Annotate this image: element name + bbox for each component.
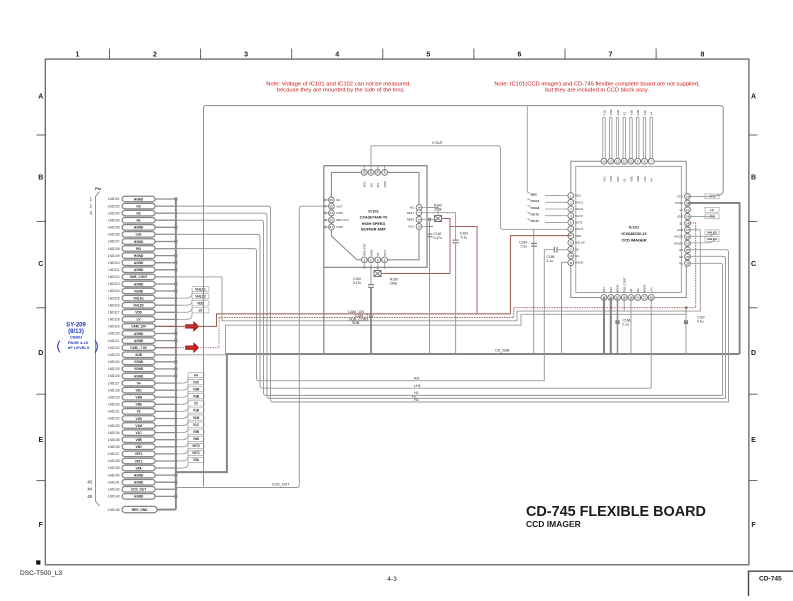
svg-text:VGT2: VGT2 xyxy=(575,214,583,218)
svg-text:LND111: LND111 xyxy=(108,268,119,272)
svg-text:): ) xyxy=(94,338,98,353)
svg-text:REG_GND: REG_GND xyxy=(132,508,148,512)
svg-text:V3C: V3C xyxy=(135,388,142,392)
svg-text:V4: V4 xyxy=(194,373,198,377)
svg-text:LND127: LND127 xyxy=(108,381,120,385)
svg-text:NC: NC xyxy=(336,198,340,202)
svg-text:SUB: SUB xyxy=(352,321,360,325)
svg-text:H3: H3 xyxy=(679,248,683,252)
svg-text:VOUT: VOUT xyxy=(575,227,583,231)
svg-text:20: 20 xyxy=(686,248,690,252)
svg-text:LH1: LH1 xyxy=(649,287,653,293)
svg-text:HGND: HGND xyxy=(134,254,144,258)
svg-text:RG: RG xyxy=(636,288,640,292)
svg-text:GND: GND xyxy=(369,250,373,256)
svg-text:LND117: LND117 xyxy=(108,310,120,314)
svg-text:LND130: LND130 xyxy=(108,403,120,407)
svg-text:LND129: LND129 xyxy=(108,395,120,399)
svg-text:14: 14 xyxy=(602,160,606,164)
svg-text:V6D: V6D xyxy=(135,445,142,449)
svg-text:LND101: LND101 xyxy=(108,197,120,201)
svg-text:4: 4 xyxy=(335,52,339,59)
svg-text:V3M: V3M xyxy=(193,387,200,391)
svg-text:V3B: V3B xyxy=(135,403,142,407)
svg-text:CD-745: CD-745 xyxy=(759,576,782,583)
svg-text:V5A: V5A xyxy=(193,458,200,462)
svg-text:LND120: LND120 xyxy=(108,332,120,336)
svg-text:VDD: VDD xyxy=(135,311,142,315)
svg-text:H2: H2 xyxy=(137,211,141,215)
svg-text:IC101: IC101 xyxy=(629,225,640,230)
svg-text:21: 21 xyxy=(686,255,690,259)
svg-text:4-3: 4-3 xyxy=(387,576,397,583)
svg-text:LND137: LND137 xyxy=(108,452,120,456)
svg-text:V1B: V1B xyxy=(193,409,200,413)
svg-text:AGND: AGND xyxy=(134,481,144,485)
svg-text:10: 10 xyxy=(629,160,633,164)
svg-text:XV1: XV1 xyxy=(602,287,606,293)
svg-text:LND142: LND142 xyxy=(108,487,120,491)
svg-text:VHLD1: VHLD1 xyxy=(133,296,144,300)
svg-text:SY-209: SY-209 xyxy=(66,323,86,329)
svg-text:V OUT: V OUT xyxy=(432,141,444,145)
svg-text:CD-745 FLEXIBLE BOARD: CD-745 FLEXIBLE BOARD xyxy=(526,504,706,520)
svg-text:13: 13 xyxy=(609,160,613,164)
svg-text:VCC: VCC xyxy=(363,181,367,187)
svg-text:V2: V2 xyxy=(623,112,627,116)
svg-text:19: 19 xyxy=(686,242,690,246)
svg-text:0.1u: 0.1u xyxy=(623,323,630,327)
svg-text:V1M: V1M xyxy=(193,416,200,420)
svg-text:C: C xyxy=(751,261,756,268)
svg-text:H1: H1 xyxy=(137,219,141,223)
svg-text:VHLD2: VHLD2 xyxy=(195,294,206,298)
svg-text:NC: NC xyxy=(575,247,579,251)
svg-text:V4: V4 xyxy=(650,178,654,182)
svg-text:B: B xyxy=(38,175,43,182)
svg-text:VHLD2: VHLD2 xyxy=(674,235,683,239)
svg-text:LND135: LND135 xyxy=(108,438,120,442)
svg-text:REF1: REF1 xyxy=(407,211,415,215)
svg-text:VGND: VGND xyxy=(675,201,683,205)
svg-text:LV: LV xyxy=(710,208,714,212)
svg-text:V3M: V3M xyxy=(636,175,640,182)
svg-text:LND131: LND131 xyxy=(108,410,120,414)
svg-text:CXA3674AR-T6: CXA3674AR-T6 xyxy=(360,216,388,220)
svg-text:CAM_-7.5V: CAM_-7.5V xyxy=(130,346,148,350)
svg-text:VGG1: VGG1 xyxy=(531,199,540,203)
svg-text:LND116: LND116 xyxy=(108,303,120,307)
svg-text:VTG: VTG xyxy=(677,195,683,199)
svg-text:0.1u: 0.1u xyxy=(547,259,554,263)
svg-text:LND112: LND112 xyxy=(108,275,120,279)
svg-text:HGND: HGND xyxy=(134,197,144,201)
svg-text:LND139: LND139 xyxy=(108,466,120,470)
svg-text:8: 8 xyxy=(701,52,705,59)
svg-text:V3B: V3B xyxy=(629,176,633,182)
svg-text:H3: H3 xyxy=(137,204,141,208)
svg-text:HIGH SPEED: HIGH SPEED xyxy=(362,222,386,226)
svg-text:1: 1 xyxy=(76,52,80,59)
svg-text:IN1: IN1 xyxy=(376,183,380,188)
svg-text:LND122: LND122 xyxy=(108,346,120,350)
svg-text:E: E xyxy=(38,437,43,444)
svg-text:AGND: AGND xyxy=(616,284,620,292)
svg-text:V3C: V3C xyxy=(193,380,200,384)
svg-text:OUT: OUT xyxy=(383,250,387,256)
svg-text:XV2: XV2 xyxy=(609,287,613,293)
svg-text:V6T1: V6T1 xyxy=(192,451,200,455)
svg-text:D: D xyxy=(38,350,43,357)
svg-text:GND: GND xyxy=(336,211,342,215)
svg-text:V2: V2 xyxy=(137,410,141,414)
svg-text:V3M: V3M xyxy=(135,396,142,400)
svg-text:45: 45 xyxy=(87,494,92,499)
svg-text:DRV OUT: DRV OUT xyxy=(336,218,349,222)
svg-text:AGND: AGND xyxy=(575,261,583,265)
svg-text:IN2: IN2 xyxy=(369,183,373,188)
svg-text:CCD_OUT: CCD_OUT xyxy=(272,483,290,487)
svg-text:LND141: LND141 xyxy=(108,480,120,484)
svg-text:LND124: LND124 xyxy=(108,360,120,364)
svg-text:F: F xyxy=(39,522,44,529)
svg-text:AGND: AGND xyxy=(134,495,144,499)
svg-text:B: B xyxy=(751,175,756,182)
svg-text:V1C: V1C xyxy=(602,176,606,182)
svg-text:V6T1: V6T1 xyxy=(135,459,143,463)
svg-text:V1C: V1C xyxy=(602,110,606,116)
svg-text:V3B: V3B xyxy=(629,110,633,116)
svg-text:VGT1: VGT1 xyxy=(575,221,583,225)
svg-text:CCD IMAGER: CCD IMAGER xyxy=(526,519,581,529)
svg-text:LND143: LND143 xyxy=(108,495,120,499)
svg-text:V3B: V3B xyxy=(193,395,200,399)
svg-text:DSC-T500_L3: DSC-T500_L3 xyxy=(20,570,62,577)
svg-text:V3C: V3C xyxy=(643,176,647,182)
svg-text:SUB_CONT: SUB_CONT xyxy=(130,275,148,279)
svg-text:V2: V2 xyxy=(623,178,627,182)
svg-text:LND119: LND119 xyxy=(108,325,120,329)
svg-text:RG: RG xyxy=(414,376,420,380)
svg-text:V4: V4 xyxy=(650,112,654,116)
svg-text:VGT1: VGT1 xyxy=(531,219,539,223)
svg-text:CD_SUB: CD_SUB xyxy=(495,349,510,353)
svg-text:V1B: V1B xyxy=(135,417,142,421)
svg-text:LND118: LND118 xyxy=(108,318,120,322)
svg-text:NSC: NSC xyxy=(575,194,581,198)
svg-text:V1M: V1M xyxy=(609,175,613,182)
svg-text:5: 5 xyxy=(426,52,430,59)
svg-text:11: 11 xyxy=(569,261,572,265)
svg-text:SQI SS: SQI SS xyxy=(575,241,584,245)
svg-text:LND104: LND104 xyxy=(108,218,120,222)
svg-text:VHLD1: VHLD1 xyxy=(195,287,206,291)
svg-text:LND114: LND114 xyxy=(108,289,120,293)
svg-text:C: C xyxy=(38,261,43,268)
svg-text:RG: RG xyxy=(136,247,141,251)
svg-text:LND102: LND102 xyxy=(108,204,120,208)
svg-text:LND138: LND138 xyxy=(108,459,120,463)
svg-text:HGND: HGND xyxy=(134,240,144,244)
svg-text:LND106: LND106 xyxy=(108,233,120,237)
svg-text:14: 14 xyxy=(686,208,690,212)
svg-text:OUT: OUT xyxy=(336,204,342,208)
svg-text:V1B: V1B xyxy=(616,176,620,182)
svg-text:VGND: VGND xyxy=(134,289,144,293)
svg-text:V5B: V5B xyxy=(135,438,142,442)
svg-text:V3M: V3M xyxy=(636,109,640,116)
svg-text:VGND: VGND xyxy=(134,360,144,364)
svg-text:Pin: Pin xyxy=(95,187,102,191)
svg-text:LND107: LND107 xyxy=(108,240,120,244)
svg-text:LND140: LND140 xyxy=(108,473,120,477)
svg-text:LND115: LND115 xyxy=(108,296,120,300)
svg-text:LND126: LND126 xyxy=(108,374,120,378)
svg-text:AGND: AGND xyxy=(134,339,144,343)
svg-text:BUFFER AMP: BUFFER AMP xyxy=(361,228,386,232)
svg-text:V4: V4 xyxy=(137,381,141,385)
svg-text:44: 44 xyxy=(87,487,92,492)
svg-text:0.1u: 0.1u xyxy=(697,320,704,324)
svg-text:LND123: LND123 xyxy=(108,353,120,357)
svg-text:11: 11 xyxy=(623,160,626,164)
svg-text:10: 10 xyxy=(569,254,573,258)
svg-text:CCD_OUT: CCD_OUT xyxy=(131,488,146,492)
svg-text:LND109: LND109 xyxy=(108,254,120,258)
svg-text:7: 7 xyxy=(609,52,613,59)
svg-text:NC: NC xyxy=(410,206,414,210)
svg-text:VDD: VDD xyxy=(677,215,683,219)
svg-text:V3C: V3C xyxy=(643,110,647,116)
svg-text:AGND: AGND xyxy=(134,282,144,286)
svg-text:LND103: LND103 xyxy=(108,211,120,215)
svg-text:AGND: AGND xyxy=(134,374,144,378)
svg-text:LH1: LH1 xyxy=(136,233,142,237)
svg-text:REF0: REF0 xyxy=(407,218,415,222)
svg-text:LND110: LND110 xyxy=(108,261,120,265)
svg-text:NC: NC xyxy=(629,288,633,292)
svg-text:0.2u: 0.2u xyxy=(521,245,528,249)
svg-text:◄F LEVELS: ◄F LEVELS xyxy=(66,345,89,350)
svg-text:LV: LV xyxy=(680,208,683,212)
svg-text:V1M: V1M xyxy=(135,424,142,428)
svg-text:VGND: VGND xyxy=(643,284,647,292)
svg-text:21: 21 xyxy=(643,296,647,300)
svg-text:20: 20 xyxy=(636,296,640,300)
svg-text:LND146: LND146 xyxy=(108,508,120,512)
svg-text:LND132: LND132 xyxy=(108,417,120,421)
svg-text:HGND: HGND xyxy=(134,226,144,230)
svg-text:ICX648CW-13: ICX648CW-13 xyxy=(621,231,647,236)
svg-text:VGT2: VGT2 xyxy=(531,213,539,217)
svg-text:LND108: LND108 xyxy=(108,247,120,251)
svg-text:LND113: LND113 xyxy=(108,282,120,286)
svg-text:LND136: LND136 xyxy=(108,445,120,449)
svg-text:SL: SL xyxy=(679,221,683,225)
svg-text:A: A xyxy=(751,94,756,101)
svg-text:VGG1: VGG1 xyxy=(575,200,583,204)
svg-text:VCC: VCC xyxy=(408,225,414,229)
svg-text:V6T2: V6T2 xyxy=(192,444,200,448)
svg-text:(: ( xyxy=(56,338,61,353)
svg-text:LND133: LND133 xyxy=(108,424,120,428)
svg-text:NSC: NSC xyxy=(531,192,538,196)
svg-text:VDD: VDD xyxy=(575,234,581,238)
svg-text:18: 18 xyxy=(686,235,690,239)
svg-text:DRV CNT: DRV CNT xyxy=(363,243,367,256)
svg-text:V6T2: V6T2 xyxy=(135,452,143,456)
svg-text:V1C: V1C xyxy=(193,423,200,427)
svg-text:LH1: LH1 xyxy=(414,384,421,388)
svg-text:VGND: VGND xyxy=(134,367,144,371)
svg-text:43: 43 xyxy=(87,480,92,485)
svg-text:NC: NC xyxy=(575,254,579,258)
svg-text:V1C: V1C xyxy=(135,431,142,435)
svg-text:GND: GND xyxy=(336,225,342,229)
svg-text:0.1u: 0.1u xyxy=(461,236,468,240)
svg-text:D: D xyxy=(751,350,756,357)
svg-text:0.47u: 0.47u xyxy=(434,236,442,240)
svg-text:SUB_CONT: SUB_CONT xyxy=(622,277,626,293)
svg-text:6: 6 xyxy=(517,52,521,59)
svg-text:12: 12 xyxy=(616,160,620,164)
svg-text:AGND: AGND xyxy=(134,332,144,336)
svg-text:LND121: LND121 xyxy=(108,339,120,343)
svg-text:GND: GND xyxy=(383,181,387,187)
svg-text:V1B: V1B xyxy=(616,110,620,116)
svg-text:H1: H1 xyxy=(679,262,683,266)
svg-text:HGND: HGND xyxy=(134,473,144,477)
svg-text:A: A xyxy=(38,94,43,101)
svg-text:SUB: SUB xyxy=(135,353,142,357)
svg-text:IC102: IC102 xyxy=(368,209,378,213)
svg-text:2: 2 xyxy=(153,52,157,59)
svg-text:V2: V2 xyxy=(194,402,198,406)
svg-text:LND128: LND128 xyxy=(108,388,120,392)
svg-text:V5B: V5B xyxy=(193,430,200,434)
svg-text:CN801: CN801 xyxy=(70,334,83,339)
svg-text:AGND: AGND xyxy=(134,261,144,265)
svg-text:LND105: LND105 xyxy=(108,226,120,230)
svg-text:LND125: LND125 xyxy=(108,367,120,371)
svg-text:SUB: SUB xyxy=(677,228,683,232)
svg-text:VGG2: VGG2 xyxy=(531,206,540,210)
svg-text:because they are mounted by th: because they are mounted by the side of … xyxy=(277,87,406,93)
svg-text:VHLD2: VHLD2 xyxy=(133,304,144,308)
svg-text:H2: H2 xyxy=(679,255,683,259)
svg-text:F: F xyxy=(751,522,756,529)
svg-text:0.47u: 0.47u xyxy=(353,281,361,285)
svg-text:3: 3 xyxy=(244,52,248,59)
svg-text:LND134: LND134 xyxy=(108,431,120,435)
svg-text:but they are included in CCD b: but they are included in CCD block assy. xyxy=(545,87,649,93)
svg-text:IN: IN xyxy=(376,253,380,256)
svg-text:CCD IMAGER: CCD IMAGER xyxy=(621,238,646,243)
svg-text:CAM_13V: CAM_13V xyxy=(131,325,147,329)
svg-text:V6D: V6D xyxy=(193,437,200,441)
svg-text:E: E xyxy=(751,437,756,444)
svg-text:V5A: V5A xyxy=(135,466,142,470)
svg-text:V1M: V1M xyxy=(609,109,613,116)
svg-text:VGG2: VGG2 xyxy=(575,207,583,211)
svg-text:200k: 200k xyxy=(390,282,398,286)
svg-text:AGND: AGND xyxy=(134,268,144,272)
svg-text:VHLD1: VHLD1 xyxy=(674,241,683,245)
